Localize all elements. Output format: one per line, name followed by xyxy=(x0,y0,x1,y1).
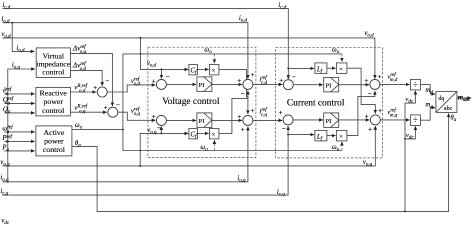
svg-text:power: power xyxy=(43,97,63,106)
svg-text:÷: ÷ xyxy=(413,115,418,125)
svg-text:abc: abc xyxy=(444,106,453,112)
summing junction voltage q output xyxy=(237,108,255,134)
wire input P_a^ref xyxy=(4,140,34,142)
wire C_f to multiplier bottom xyxy=(197,132,208,134)
svg-text:control: control xyxy=(43,145,66,154)
wire theta_a routing to dq-abc xyxy=(72,113,449,212)
wire omega rise to multiplier bottom current xyxy=(341,142,343,151)
block C_f bottom xyxy=(189,128,198,139)
svg-text:+: + xyxy=(237,78,241,85)
wire rail v_o,q bottom xyxy=(2,126,375,167)
wire v_o,q to voltage q sum minus xyxy=(160,126,162,133)
svg-text:PI: PI xyxy=(199,82,205,89)
svg-text:+: + xyxy=(152,78,156,85)
wire rail i_o,q bottom xyxy=(2,127,248,183)
summing junction current q input xyxy=(279,110,293,133)
voltage control dashed box xyxy=(148,47,256,157)
wire branch i_o,q into virtual impedance xyxy=(8,69,35,182)
wire m_q to dq-abc xyxy=(420,108,435,121)
svg-text:×: × xyxy=(339,134,343,141)
svg-text:+: + xyxy=(251,108,255,115)
svg-text:+: + xyxy=(93,85,97,92)
virtual impedance control box xyxy=(36,48,71,78)
wire input omega_a^ref xyxy=(4,131,34,133)
svg-text:−: − xyxy=(282,126,286,133)
wire i_c,q ref to current sum xyxy=(253,119,282,121)
current control dashed box xyxy=(275,48,382,158)
wire cross-coupling row A to q output sum xyxy=(219,69,248,114)
multiplier block top current xyxy=(336,63,347,74)
svg-text:−: − xyxy=(368,90,372,97)
wire C_f to multiplier top xyxy=(197,68,208,70)
wire voltage d error to PI xyxy=(166,83,196,85)
wire m_d to dq-abc xyxy=(420,85,435,94)
block L_f top xyxy=(315,63,327,75)
wire input Q_a^ref xyxy=(4,102,34,104)
summing junction d (virtual impedance subtract) xyxy=(93,78,109,97)
wire cross-coupling current row1 to q output xyxy=(347,68,375,113)
wire cross-coupling row D to d output sum xyxy=(219,91,248,134)
wire i_c,q branch to L_f bottom xyxy=(288,134,314,136)
svg-text:PI: PI xyxy=(199,118,205,125)
wire rail v_o,d xyxy=(2,37,375,79)
wire rail i_o,d xyxy=(2,22,248,79)
wire current d PI to output sum xyxy=(339,84,369,86)
summing junction voltage q xyxy=(152,114,167,132)
multiplier block bottom voltage xyxy=(209,128,219,139)
multiplier block bottom current xyxy=(336,130,347,141)
svg-text:×: × xyxy=(339,66,343,73)
wire voltage q error to PI xyxy=(166,119,196,121)
wire v_o,d ref to voltage sum xyxy=(107,85,155,92)
wire v_o,q^R,ref output xyxy=(70,111,106,113)
block PI current d xyxy=(324,77,339,92)
wire omega rise to multiplier bottom voltage xyxy=(213,140,215,150)
svg-text:+: + xyxy=(364,78,368,85)
wire Delta v_o,q ref output xyxy=(70,54,112,106)
summing junction current d output xyxy=(364,74,382,98)
svg-text:PI: PI xyxy=(325,83,331,90)
wire input Q_a xyxy=(4,112,34,114)
block PI voltage d xyxy=(197,77,212,92)
wire v_o,d^R,ref output xyxy=(70,91,96,93)
wire v_m,d ref to divider xyxy=(380,83,410,85)
svg-text:×: × xyxy=(212,67,216,74)
wire current q PI to output sum xyxy=(339,119,370,121)
wire omega drop to multiplier top voltage xyxy=(213,54,215,63)
wire voltage q PI to output sum xyxy=(212,119,242,121)
svg-text:÷: ÷ xyxy=(413,80,418,90)
wire v_o,q rise into voltage control xyxy=(139,132,188,166)
svg-text:+: + xyxy=(152,114,156,121)
divider block q xyxy=(410,115,420,126)
wire omega_o from active power control xyxy=(72,54,342,151)
wire v_m,q ref to divider xyxy=(380,119,409,121)
wire L_f to multiplier top current xyxy=(327,67,336,69)
wire voltage d PI to output sum xyxy=(212,83,242,85)
svg-text:−: − xyxy=(241,90,245,97)
svg-text:Current control: Current control xyxy=(287,99,345,109)
wire input e_a^ref xyxy=(4,93,34,95)
svg-text:+: + xyxy=(279,78,283,85)
wire v_dc feed to dividers xyxy=(404,91,415,212)
wire branch i_o,d into virtual impedance xyxy=(12,23,34,52)
wire cross-coupling current row4 to d output xyxy=(347,91,375,136)
svg-text:+: + xyxy=(104,105,108,112)
wire i_c,d ref to current sum xyxy=(253,83,283,85)
summing junction voltage d xyxy=(152,74,170,90)
svg-text:PI: PI xyxy=(325,118,331,125)
svg-text:+: + xyxy=(365,113,369,120)
wire v_o,q ref to voltage sum xyxy=(118,112,156,120)
multiplier block top voltage xyxy=(209,64,219,75)
svg-text:+: + xyxy=(241,127,245,134)
wire rail i_c,q bottom xyxy=(2,126,289,195)
summing junction current d input xyxy=(279,74,296,90)
svg-text:−: − xyxy=(292,74,296,81)
wire current d error to PI xyxy=(293,84,323,86)
wire v_o,d to voltage sum minus xyxy=(160,69,162,78)
svg-text:+: + xyxy=(378,108,382,115)
reactive power control box xyxy=(36,87,71,116)
svg-text:−: − xyxy=(166,74,170,81)
svg-text:+: + xyxy=(279,110,283,117)
svg-text:+: + xyxy=(378,74,382,81)
block C_f top xyxy=(189,64,198,75)
divider block d xyxy=(410,79,420,90)
wire v_o,d drop into voltage control xyxy=(140,38,189,71)
svg-text:control: control xyxy=(42,67,65,76)
summing junction voltage d output xyxy=(237,72,255,98)
svg-text:−: − xyxy=(157,125,161,132)
block PI voltage q xyxy=(197,113,212,128)
svg-text:−: − xyxy=(105,78,109,85)
svg-text:×: × xyxy=(212,131,216,138)
svg-text:control: control xyxy=(42,106,65,115)
block L_f bottom xyxy=(315,130,327,142)
svg-text:−: − xyxy=(116,102,120,109)
wire Delta v_o,d ref output xyxy=(70,70,102,86)
wire input P_a xyxy=(4,150,34,152)
dq to abc transform block xyxy=(436,91,457,112)
wire rail i_c,d top xyxy=(2,8,289,79)
wire L_f to multiplier bottom current xyxy=(327,135,336,137)
wire i_c,d branch to L_f top xyxy=(288,67,314,69)
wire current q error to PI xyxy=(293,119,323,121)
active power control box xyxy=(36,126,72,156)
svg-text:+: + xyxy=(237,114,241,121)
svg-text:irefc,q: irefc,q xyxy=(259,108,267,118)
svg-text:+: + xyxy=(368,126,372,133)
block PI current q xyxy=(324,113,339,128)
wire m_abc output xyxy=(457,97,471,99)
summing junction current q output xyxy=(365,108,383,133)
svg-text:Voltage control: Voltage control xyxy=(162,97,220,107)
svg-text:+: + xyxy=(251,72,255,79)
svg-text:irefc,d: irefc,d xyxy=(259,76,267,86)
summing junction q (virtual impedance subtract) xyxy=(104,102,120,117)
svg-text:dq: dq xyxy=(438,96,444,102)
wire omega drop to multiplier top current xyxy=(341,54,343,62)
